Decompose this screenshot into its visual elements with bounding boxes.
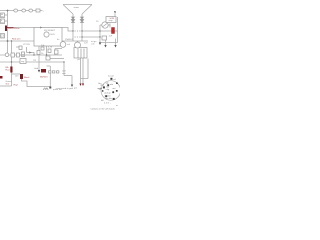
svg-text:unit: unit	[62, 72, 66, 75]
arrow output 3	[104, 45, 106, 48]
resistor R6	[48, 49, 51, 53]
ignition coil windings	[78, 49, 84, 59]
diode D6	[29, 52, 32, 54]
wire coil secondary right	[82, 58, 84, 84]
wire x23 branch	[16, 47, 27, 53]
wire charge coil left	[72, 14, 74, 41]
wire kill switch vertical	[117, 17, 119, 43]
wire main horizontal node B	[14, 27, 35, 29]
diode D1	[72, 17, 75, 20]
pointer line	[98, 88, 103, 90]
wire arrow stem mid	[105, 39, 107, 46]
red arrow tip 1	[79, 84, 81, 87]
svg-text:Black/White: Black/White	[8, 27, 20, 30]
regulator circle U3	[60, 42, 66, 48]
pin 8	[116, 90, 118, 92]
wire vertical x46.5	[46, 41, 48, 55]
ground symbol	[49, 87, 51, 89]
svg-text:coil: coil	[91, 43, 95, 45]
wire y55	[0, 54, 62, 56]
wire y62	[0, 61, 64, 63]
wire y86 left	[0, 85, 12, 87]
resistor R11	[37, 51, 40, 55]
connector block J2	[1, 19, 5, 24]
SCR internal	[103, 24, 107, 27]
connector block J3	[1, 34, 5, 39]
svg-text:Contacts on the CDI module: Contacts on the CDI module	[91, 108, 115, 111]
svg-text:LT1111: LT1111	[23, 44, 31, 46]
wire SCR cathode vertical	[99, 25, 101, 43]
wire label LB4	[41, 69, 46, 73]
svg-text:D5 1N4007: D5 1N4007	[44, 30, 56, 32]
pin 3	[107, 84, 109, 86]
waveform pulse	[43, 88, 48, 89]
pin 7	[116, 82, 118, 84]
resistor R1	[14, 9, 18, 12]
ignition coil top circle	[75, 42, 81, 48]
connector block J1	[1, 13, 5, 18]
diode D2	[72, 20, 75, 23]
wire CDI top to magneto	[62, 28, 73, 32]
svg-text:sw: sw	[1, 22, 4, 24]
svg-text:wht: wht	[15, 74, 19, 77]
dark mark bottom left	[0, 76, 3, 79]
junction dot B	[11, 40, 12, 41]
diode D4	[81, 20, 84, 23]
wire y42.5 right bus	[99, 42, 118, 44]
snubber box Z2	[53, 71, 55, 73]
wire label drop path	[22, 79, 51, 87]
wire left vertical	[7, 11, 9, 54]
svg-text:to coil: to coil	[108, 75, 114, 78]
resistor R4	[36, 9, 40, 12]
svg-text:12V: 12V	[84, 43, 88, 45]
wire top bus	[0, 10, 43, 12]
svg-text:sw: sw	[1, 16, 4, 18]
junction dot B2	[7, 40, 9, 42]
wire x55 stub	[55, 49, 62, 56]
junction dot H	[72, 30, 73, 31]
snubber box Z3	[57, 71, 59, 73]
svg-text:Green: Green	[6, 80, 13, 83]
arrow output 5	[71, 85, 73, 88]
wire x64 vertical	[63, 62, 65, 76]
svg-text:pulse out: pulse out	[53, 88, 62, 91]
resistor R8	[46, 56, 50, 60]
kill switch box S1	[106, 17, 116, 23]
wire label LB2	[10, 67, 12, 73]
pin 6	[112, 91, 114, 93]
wire y31 cap right	[115, 30, 118, 32]
wire coil return	[81, 59, 89, 79]
svg-text:1uF: 1uF	[109, 36, 113, 38]
wire label LB1 black/white	[5, 26, 7, 32]
svg-text:out: out	[113, 87, 116, 90]
resistor R7	[55, 50, 59, 54]
arrow output 2	[99, 43, 101, 46]
wire stub J2	[5, 20, 8, 22]
pin 5	[113, 98, 115, 100]
svg-text:Red wire: Red wire	[12, 37, 21, 40]
svg-text:wht: wht	[110, 83, 114, 86]
dashed link node K2	[75, 36, 82, 38]
pickup coil P1	[5, 53, 9, 57]
junction dot I	[81, 30, 82, 31]
wire label LB3	[20, 74, 23, 79]
wire y37	[82, 36, 100, 38]
svg-text:nc: nc	[116, 105, 118, 107]
wire y41 bus	[0, 40, 88, 42]
CDI module box	[34, 28, 62, 47]
connector circle	[101, 81, 121, 101]
wire diode branch	[27, 53, 35, 56]
svg-text:Black: Black	[24, 77, 30, 79]
junction dot L	[99, 36, 100, 37]
arrow output 1	[38, 70, 40, 73]
SCR U2	[102, 22, 108, 28]
junction dot E	[33, 54, 34, 55]
component box X2	[17, 53, 20, 57]
arrow output 4	[114, 45, 116, 48]
wire kill switch stub	[114, 14, 116, 17]
svg-text:Blk/Wht: Blk/Wht	[40, 76, 48, 79]
diode D3	[81, 17, 84, 20]
diode D5	[40, 27, 43, 29]
wire SCR leads	[100, 24, 110, 28]
wire y31 to cap	[82, 30, 112, 32]
wire ground drop	[47, 66, 51, 87]
wire y58.5	[50, 58, 64, 60]
wire branch y74	[12, 73, 21, 75]
component box X1	[11, 53, 15, 57]
wire vertical x39	[38, 41, 40, 70]
pin 1	[110, 78, 112, 80]
component box X6	[20, 59, 26, 64]
pin 9	[102, 90, 104, 92]
resistor R2	[22, 9, 26, 12]
pin 2	[103, 86, 105, 88]
wire x72 arrow stem	[71, 76, 73, 85]
resistor R3	[29, 9, 33, 12]
wire y75.5	[64, 75, 72, 77]
junction dot G	[63, 61, 64, 62]
transistor Q1	[44, 32, 49, 37]
magneto funnel	[63, 5, 92, 15]
wire charge coil right	[81, 14, 83, 41]
junction dot K	[99, 30, 100, 31]
component box X3	[22, 52, 25, 57]
dashed link node K1	[75, 30, 82, 32]
svg-text:1N4007: 1N4007	[65, 39, 73, 41]
svg-text:stator: stator	[74, 6, 80, 9]
wire coil secondary left	[80, 58, 82, 84]
wire coil drawing stub	[77, 41, 79, 43]
arrow kill switch	[114, 11, 116, 14]
wire arrow stem right	[115, 39, 117, 46]
wire red segment	[7, 27, 14, 29]
junction dot A	[7, 10, 9, 12]
pin 4	[105, 95, 107, 97]
red arrow tip 2	[82, 84, 84, 87]
capacitor C1	[112, 28, 115, 34]
component box X4	[19, 46, 22, 50]
junction dot J	[81, 36, 82, 37]
junction dot C	[11, 61, 12, 62]
resistor R5	[41, 47, 44, 50]
svg-text:pickup: pickup	[105, 92, 112, 94]
junction dot F	[46, 54, 47, 55]
wire stub J1	[5, 14, 8, 16]
svg-text:grn blu: grn blu	[106, 97, 113, 100]
wire vertical x11.5	[11, 41, 13, 86]
resistor R10	[102, 36, 107, 40]
ignition coil body	[74, 48, 87, 59]
junction dot D	[22, 54, 23, 55]
snubber box Z1	[49, 71, 51, 73]
